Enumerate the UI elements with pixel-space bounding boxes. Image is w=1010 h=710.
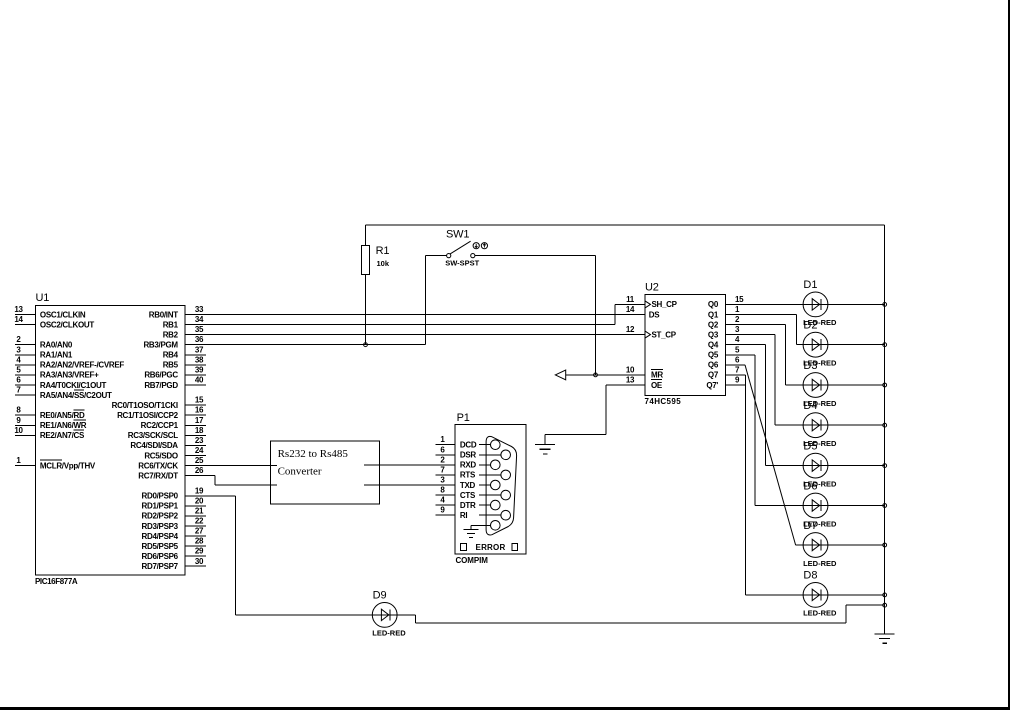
U1 pin 17 RC2/CCP1 <box>141 416 206 430</box>
U1 pin 9 RE1/AN6/WR <box>15 416 87 430</box>
svg-text:Q6: Q6 <box>708 361 719 370</box>
U1 pin 39 RB6/PGC <box>144 365 206 379</box>
U1 pin 1 MCLR/Vpp/THV <box>15 456 96 470</box>
svg-text:RC1/T1OSI/CCP2: RC1/T1OSI/CCP2 <box>117 411 179 420</box>
svg-text:D7: D7 <box>803 520 817 532</box>
U2 pin 5 Q5 <box>708 345 740 359</box>
svg-text:P1: P1 <box>457 412 470 424</box>
svg-text:RA2/AN2/VREF-/CVREF: RA2/AN2/VREF-/CVREF <box>40 361 125 370</box>
U1 pin 28 RD5/PSP5 <box>142 537 206 551</box>
switch SW1 SW-SPST <box>445 228 487 267</box>
LED D2 LED-RED <box>803 320 837 368</box>
U2 pin 3 Q3 <box>708 325 740 339</box>
wire RB0 to U2 DS <box>185 314 645 316</box>
svg-text:R1: R1 <box>376 245 390 257</box>
svg-text:RD6/PSP6: RD6/PSP6 <box>142 552 179 561</box>
svg-text:30: 30 <box>195 557 204 566</box>
svg-text:SW1: SW1 <box>446 228 469 240</box>
U1 pin 10 RE2/AN7/CS <box>14 426 85 440</box>
U2 pin 13 OE <box>626 376 663 390</box>
block Rs232 to Rs485 Converter <box>270 441 379 504</box>
svg-text:Q7': Q7' <box>706 381 718 390</box>
svg-text:D2: D2 <box>803 320 817 332</box>
U1 pin 20 RD1/PSP1 <box>142 496 206 510</box>
U1 pin 2 RA0/AN0 <box>15 335 73 349</box>
junction SW1/MR node <box>594 373 598 377</box>
junction rail at D4 <box>883 423 887 427</box>
P1 pin 1 DCD <box>436 435 477 449</box>
U1 pin 38 RB5 <box>163 355 206 369</box>
svg-text:RB0/INT: RB0/INT <box>149 310 178 319</box>
wire SW1 left terminal to RB3 net <box>426 256 447 345</box>
svg-text:D8: D8 <box>803 570 817 582</box>
svg-text:COMPIM: COMPIM <box>456 556 489 565</box>
svg-text:RB6/PGC: RB6/PGC <box>144 371 178 380</box>
svg-text:14: 14 <box>14 315 23 324</box>
U1 pin 14 OSC2/CLKOUT <box>14 315 94 329</box>
svg-text:LED-RED: LED-RED <box>803 609 837 618</box>
svg-text:RA5/AN4/SS/C2OUT: RA5/AN4/SS/C2OUT <box>40 391 112 400</box>
svg-text:RC2/CCP1: RC2/CCP1 <box>141 421 179 430</box>
svg-text:RD4/PSP4: RD4/PSP4 <box>142 532 179 541</box>
U1 pin 40 RB7/PGD <box>144 376 206 390</box>
svg-text:OSC1/CLKIN: OSC1/CLKIN <box>40 310 86 319</box>
P1 pin 2 RXD <box>440 455 476 469</box>
svg-text:15: 15 <box>735 295 744 304</box>
svg-text:D9: D9 <box>373 590 387 602</box>
svg-text:D1: D1 <box>803 279 817 291</box>
P1 internal ground (DB9 pin 5) <box>471 525 491 529</box>
svg-text:TXD: TXD <box>460 481 476 490</box>
svg-text:RA1/AN1: RA1/AN1 <box>40 351 73 360</box>
svg-text:24: 24 <box>195 446 204 455</box>
U2 pin 15 Q0 <box>708 295 744 309</box>
junction rail at D2 <box>883 343 887 347</box>
U1 pin 7 RA5/AN4/SS/C2OUT <box>15 386 112 400</box>
P1 pin 4 DTR <box>436 496 476 510</box>
P1 DB9 pin circle 9 <box>491 521 501 531</box>
P1 DB9 pin circle 3 <box>479 460 500 470</box>
svg-text:21: 21 <box>195 506 204 515</box>
U1 pin 16 RC1/T1OSI/CCP2 <box>117 406 206 420</box>
svg-text:12: 12 <box>626 325 635 334</box>
U1 pin 25 RC6/TX/CK <box>138 456 204 470</box>
svg-text:33: 33 <box>195 305 204 314</box>
svg-text:25: 25 <box>195 456 204 465</box>
svg-text:RTS: RTS <box>460 471 476 480</box>
wire RB1 to U2 SH_CP <box>185 304 645 324</box>
svg-text:CTS: CTS <box>460 491 476 500</box>
wire U2 Q7 to D8 and rail <box>726 375 885 595</box>
U2 pin 10 MR <box>626 365 664 379</box>
svg-text:36: 36 <box>195 335 204 344</box>
wire RB3 to R1 / SW1 <box>185 344 425 346</box>
LED D3 LED-RED <box>803 360 837 408</box>
wire D9 to rail near D8 <box>416 605 885 623</box>
U1 pin 36 RB3/PGM <box>143 335 204 349</box>
wire converter to P1 RXD <box>364 464 455 466</box>
svg-text:35: 35 <box>195 325 204 334</box>
svg-text:RD5/PSP5: RD5/PSP5 <box>142 542 179 551</box>
U1 pin 35 RB2 <box>163 325 204 339</box>
svg-text:ST_CP: ST_CP <box>652 330 677 339</box>
U1 pin 3 RA1/AN1 <box>15 345 73 359</box>
ground symbol (right rail) <box>875 633 895 635</box>
svg-text:OE: OE <box>651 381 663 390</box>
U1 pin 13 OSC1/CLKIN <box>14 305 86 319</box>
svg-text:RD3/PSP3: RD3/PSP3 <box>142 522 179 531</box>
svg-text:RI: RI <box>460 511 467 520</box>
P1 DB9 connector outline <box>486 436 516 535</box>
svg-text:SW-SPST: SW-SPST <box>445 259 479 268</box>
U1 pin 27 RD4/PSP4 <box>142 527 206 541</box>
wire arrow to U2 MR pin 10 <box>566 374 645 376</box>
svg-text:Q7: Q7 <box>708 371 719 380</box>
svg-text:RC6/TX/CK: RC6/TX/CK <box>138 461 178 470</box>
U1 pin 4 RA2/AN2/VREF-/CVREF <box>15 355 124 369</box>
IC U2 74HC595 <box>645 282 726 406</box>
svg-text:DSR: DSR <box>460 451 477 460</box>
wire U1 RD0 pin 19 to D9 <box>185 496 416 615</box>
U1 pin 6 RA4/T0CKI/C1OUT <box>15 376 106 390</box>
svg-text:RC7/RX/DT: RC7/RX/DT <box>138 471 178 480</box>
svg-text:OSC2/CLKOUT: OSC2/CLKOUT <box>40 320 94 329</box>
svg-text:11: 11 <box>626 295 635 304</box>
U1 pin 23 RC4/SDI/SDA <box>130 436 205 450</box>
svg-text:14: 14 <box>626 305 635 314</box>
svg-text:RC0/T1OSO/T1CKI: RC0/T1OSO/T1CKI <box>112 401 178 410</box>
LED D7 LED-RED <box>803 520 837 568</box>
U2 pin 9 Q7' <box>706 376 740 390</box>
U1 pin 24 RC5/SDO <box>144 446 206 460</box>
U2 pin 14 DS <box>626 305 660 319</box>
svg-text:D4: D4 <box>803 400 817 412</box>
U1 pin 22 RD3/PSP3 <box>142 517 206 531</box>
wire U2 Q3 to D4 and rail <box>726 335 885 426</box>
svg-text:17: 17 <box>195 416 204 425</box>
wire U2 OE pin 13 to ground <box>545 385 645 445</box>
svg-text:Q3: Q3 <box>708 330 719 339</box>
ground symbol (P1 internal) <box>464 529 479 531</box>
svg-text:29: 29 <box>195 547 204 556</box>
svg-text:RB2: RB2 <box>163 330 179 339</box>
wire R1 top to +rail <box>365 225 367 246</box>
IC U1 PIC16F877A <box>35 292 185 586</box>
svg-text:DTR: DTR <box>460 501 476 510</box>
wire U2 Q5 to D6 and rail <box>726 355 885 506</box>
P1 DB9 pin circle 8 <box>479 470 511 480</box>
LED D6 LED-RED <box>803 480 837 528</box>
svg-text:RD2/PSP2: RD2/PSP2 <box>142 512 179 521</box>
wire U1 RC7/RX pin 26 to converter <box>185 476 277 486</box>
P1 DB9 pin circle 5 <box>479 480 500 490</box>
junction RB3/R1 node <box>364 343 368 347</box>
svg-text:RA0/AN0: RA0/AN0 <box>40 341 73 350</box>
junction rail at D7 <box>883 543 887 547</box>
junction rail at D9 net <box>883 603 887 607</box>
wire U2 Q1 to D2 and rail <box>726 315 885 345</box>
wire U2 Q0 to D1 and rail <box>726 303 885 305</box>
svg-text:38: 38 <box>195 355 204 364</box>
connector P1 COMPIM body <box>455 412 526 565</box>
P1 DB9 pin circle 12 <box>479 510 511 520</box>
wire right vertical rail <box>884 225 886 634</box>
svg-text:RE0/AN5/RD: RE0/AN5/RD <box>40 411 85 420</box>
LED D5 LED-RED <box>803 440 837 488</box>
U1 pin 21 RD2/PSP2 <box>142 506 206 520</box>
svg-text:PIC16F877A: PIC16F877A <box>35 577 78 586</box>
P1 ERROR indicator <box>461 543 518 552</box>
svg-text:RD1/PSP1: RD1/PSP1 <box>142 502 179 511</box>
svg-text:D3: D3 <box>803 360 817 372</box>
svg-text:Q4: Q4 <box>708 341 719 350</box>
U2 pin 1 Q1 <box>708 305 740 319</box>
P1 DB9 pin circle 7 <box>479 500 500 510</box>
svg-text:10k: 10k <box>377 259 390 268</box>
junction rail at D1 <box>883 303 887 307</box>
svg-text:28: 28 <box>195 537 204 546</box>
U1 pin 18 RC3/SCK/SCL <box>128 426 206 440</box>
svg-text:Converter: Converter <box>278 466 322 478</box>
junction rail at D8 <box>883 593 887 597</box>
U1 pin 29 RD6/PSP6 <box>142 547 206 561</box>
svg-text:RC5/SDO: RC5/SDO <box>144 451 178 460</box>
U1 pin 19 RD0/PSP0 <box>142 486 204 500</box>
svg-text:Q0: Q0 <box>708 300 719 309</box>
LED D1 LED-RED <box>803 279 837 327</box>
wire SW1 right terminal down to MR net <box>475 256 596 375</box>
svg-text:Q2: Q2 <box>708 320 719 329</box>
svg-text:LED-RED: LED-RED <box>372 629 406 638</box>
svg-text:RD0/PSP0: RD0/PSP0 <box>142 492 179 501</box>
svg-text:Rs232 to Rs485: Rs232 to Rs485 <box>278 448 349 460</box>
wire U2 Q7' stub <box>726 384 746 386</box>
svg-text:RC4/SDI/SDA: RC4/SDI/SDA <box>130 441 178 450</box>
U1 pin 34 RB1 <box>163 315 204 329</box>
input arrow on U2 MR net <box>555 370 565 380</box>
svg-text:RB3/PGM: RB3/PGM <box>143 341 178 350</box>
svg-text:D6: D6 <box>803 480 817 492</box>
P1 DB9 pin circle 6 <box>479 450 511 460</box>
svg-text:13: 13 <box>14 305 23 314</box>
svg-text:SH_CP: SH_CP <box>652 300 678 309</box>
svg-text:10: 10 <box>14 426 23 435</box>
junction rail at D5 <box>883 464 887 468</box>
svg-text:MR: MR <box>651 371 663 380</box>
svg-text:RB4: RB4 <box>163 351 179 360</box>
svg-text:34: 34 <box>195 315 204 324</box>
P1 pin 8 CTS <box>436 486 476 500</box>
svg-text:16: 16 <box>195 406 204 415</box>
svg-text:U1: U1 <box>36 292 50 304</box>
svg-text:19: 19 <box>195 486 204 495</box>
U1 pin 8 RE0/AN5/RD <box>15 406 85 420</box>
U2 pin 2 Q2 <box>708 315 740 329</box>
junction rail at D3 <box>883 383 887 387</box>
svg-text:RXD: RXD <box>460 461 477 470</box>
U1 pin 5 RA3/AN3/VREF+ <box>15 365 99 379</box>
LED D4 LED-RED <box>803 400 837 448</box>
wire U2 Q4 to D5 and rail <box>726 345 885 466</box>
P1 pin 7 RTS <box>436 465 476 479</box>
svg-text:18: 18 <box>195 426 204 435</box>
svg-text:Q1: Q1 <box>708 310 719 319</box>
P1 pin 3 TXD <box>440 476 475 490</box>
svg-text:37: 37 <box>195 345 204 354</box>
svg-text:15: 15 <box>195 396 204 405</box>
svg-text:DCD: DCD <box>460 441 477 450</box>
wire R1 bottom to RB3 net <box>365 274 367 344</box>
svg-text:MCLR/Vpp/THV: MCLR/Vpp/THV <box>40 461 96 470</box>
svg-text:RC3/SCK/SCL: RC3/SCK/SCL <box>128 431 178 440</box>
svg-text:RE1/AN6/WR: RE1/AN6/WR <box>40 421 87 430</box>
U1 pin 33 RB0/INT <box>149 305 204 319</box>
svg-text:U2: U2 <box>645 282 659 294</box>
svg-text:DS: DS <box>649 310 660 319</box>
U2 pin 6 Q6 <box>708 355 740 369</box>
U1 pin 30 RD7/PSP7 <box>142 557 206 571</box>
U1 pin 37 RB4 <box>163 345 206 359</box>
wire top supply rail <box>366 224 885 226</box>
svg-text:RD7/PSP7: RD7/PSP7 <box>142 562 179 571</box>
svg-text:39: 39 <box>195 365 204 374</box>
U1 pin 26 RC7/RX/DT <box>138 466 204 480</box>
svg-text:RB5: RB5 <box>163 361 179 370</box>
svg-text:74HC595: 74HC595 <box>645 397 682 406</box>
svg-text:LED-RED: LED-RED <box>803 559 837 568</box>
wire U1 RC6/TX pin 25 to converter <box>185 465 277 467</box>
U2 pin 4 Q4 <box>708 335 740 349</box>
svg-text:23: 23 <box>195 436 204 445</box>
P1 pin 6 DSR <box>436 445 477 459</box>
junction rail at D6 <box>883 504 887 508</box>
svg-text:RE2/AN7/CS: RE2/AN7/CS <box>40 431 85 440</box>
svg-text:Q5: Q5 <box>708 351 719 360</box>
svg-text:13: 13 <box>626 376 635 385</box>
P1 pin 9 RI <box>436 506 468 520</box>
U2 pin 11 SH_CP <box>626 295 678 309</box>
svg-text:RB1: RB1 <box>163 320 179 329</box>
wire RB2 to U2 ST_CP <box>185 334 645 336</box>
svg-text:10: 10 <box>626 365 635 374</box>
svg-text:D5: D5 <box>803 440 817 452</box>
svg-text:40: 40 <box>195 376 204 385</box>
P1 DB9 pin circle 1 <box>479 440 500 450</box>
wire U2 Q2 to D3 and rail <box>726 325 885 385</box>
resistor R1 10k <box>361 245 389 274</box>
U1 pin 15 RC0/T1OSO/T1CKI <box>112 396 206 410</box>
LED D8 LED-RED <box>803 570 837 618</box>
P1 DB9 pin circle 10 <box>479 490 511 500</box>
wire U2 Q6 diagonal to D7 and rail <box>726 365 885 545</box>
svg-text:RB7/PGD: RB7/PGD <box>144 381 178 390</box>
svg-text:ERROR: ERROR <box>476 543 506 552</box>
svg-text:26: 26 <box>195 466 204 475</box>
wire converter to P1 TXD <box>364 484 455 486</box>
svg-text:RA4/T0CKI/C1OUT: RA4/T0CKI/C1OUT <box>40 381 107 390</box>
svg-text:RA3/AN3/VREF+: RA3/AN3/VREF+ <box>40 371 99 380</box>
LED D9 LED-RED <box>372 590 406 638</box>
svg-text:22: 22 <box>195 517 204 526</box>
ground symbol (U2 OE) <box>535 444 555 446</box>
U2 pin 12 ST_CP <box>626 325 677 339</box>
U2 pin 7 Q7 <box>708 365 740 379</box>
svg-text:27: 27 <box>195 527 204 536</box>
svg-text:20: 20 <box>195 496 204 505</box>
